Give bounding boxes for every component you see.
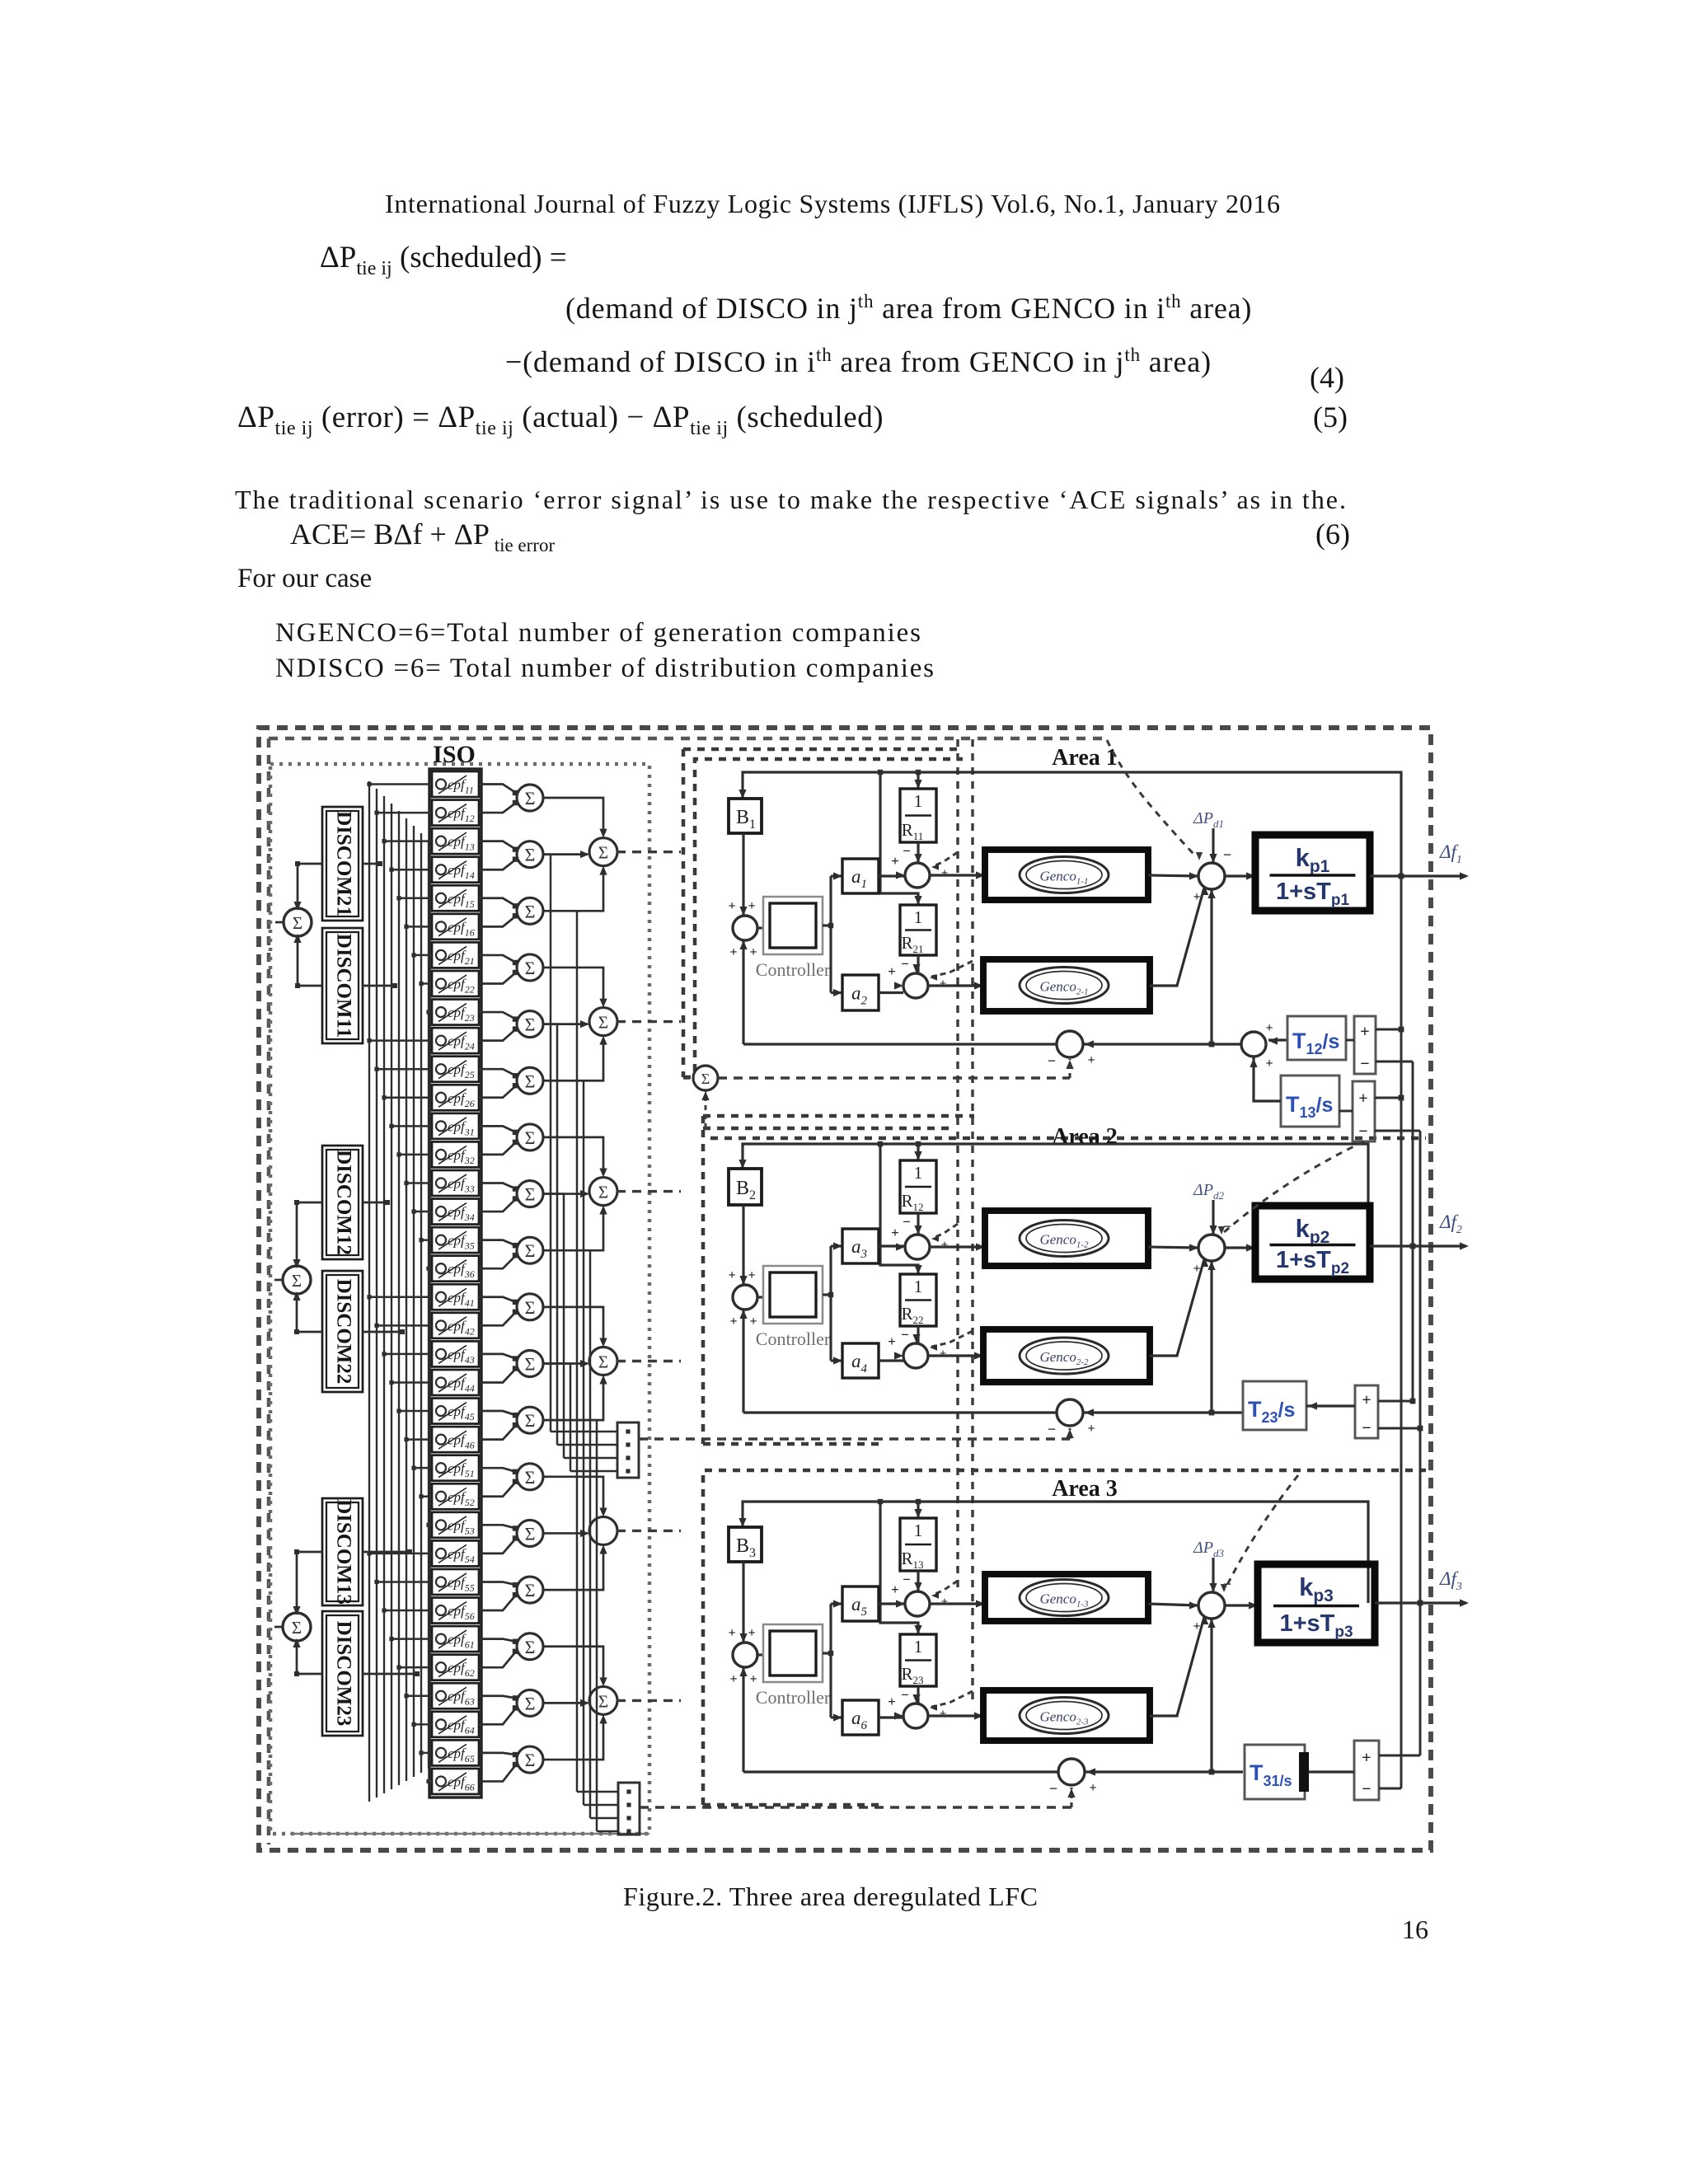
wire bus to cpf21 — [414, 954, 432, 956]
wire L2 to upper DISCOM — [297, 1202, 322, 1267]
genco sum circle 4 area2 — [903, 1343, 928, 1368]
DISCOM11 block — [322, 928, 363, 1043]
wire main sum vertical to tie line area3 — [1210, 1619, 1212, 1772]
svg-text:For our case: For our case — [237, 564, 372, 593]
svg-text:−: − — [903, 1572, 911, 1587]
wire L3 to lower DISCOM — [297, 1640, 322, 1674]
svg-text:NGENCO=6=Total number of gener: NGENCO=6=Total number of generation comp… — [275, 618, 921, 648]
svg-text:Σ: Σ — [525, 1184, 536, 1205]
wire Genco2-3 to main sum — [1150, 1617, 1204, 1716]
DISCO area sum circle L1 — [284, 908, 312, 936]
svg-text:+: + — [1362, 1391, 1371, 1409]
wire bus to cpf13 — [384, 840, 432, 841]
wire bus to cpf66 — [429, 1780, 432, 1782]
area3 dashed box bottom — [703, 1803, 882, 1807]
area2 dashed box left — [701, 1116, 706, 1444]
svg-text:+: + — [941, 867, 949, 880]
df2 feedback long vertical wire — [1412, 1062, 1414, 1401]
wire bus to cpf63 — [406, 1694, 432, 1696]
wire controller sum to controller area1 — [757, 926, 763, 929]
svg-text:−: − — [903, 1214, 911, 1230]
svg-text:Σ: Σ — [525, 1240, 536, 1261]
wire bus to cpf32 — [399, 1154, 432, 1155]
dashed wire upper collector to Area2 ACE — [639, 1437, 1070, 1440]
wire bus to cpf52 — [421, 1496, 432, 1497]
cpf12 block — [432, 800, 479, 826]
svg-text:DISCOM23: DISCOM23 — [332, 1621, 354, 1727]
stub L3 from border — [274, 1626, 284, 1629]
area1 feedback to R1 wire — [917, 772, 919, 789]
wire sum to Genco2-2 — [928, 1354, 983, 1357]
cpf66 block — [432, 1769, 479, 1794]
svg-text:Σ: Σ — [598, 1183, 608, 1202]
wire a2 to sum area1 — [879, 991, 903, 994]
controller sum circle area3 — [733, 1643, 757, 1667]
svg-text:Figure.2. Three area deregulat: Figure.2. Three area deregulated LFC — [623, 1882, 1038, 1911]
svg-text:ISO: ISO — [433, 741, 476, 768]
cpf45 block — [432, 1399, 479, 1424]
wire cpf pair 8 to sum — [479, 1183, 516, 1188]
dashed scheduled-tie output of G6 — [617, 1699, 681, 1702]
wire ACE to controller sum area2 — [742, 1310, 744, 1413]
wire main sum to kp2 — [1225, 1246, 1255, 1249]
wire cpf pair 14 to sum — [479, 1525, 516, 1528]
area2 dashed box top outer — [710, 1137, 1426, 1141]
svg-text:1: 1 — [914, 907, 923, 927]
second-level sum circle G5 — [589, 1516, 617, 1544]
DISCOM21 output wire — [363, 863, 380, 865]
cpf22 block — [432, 971, 479, 996]
svg-text:Σ: Σ — [525, 1750, 536, 1770]
ACE sum circle area3 — [1058, 1759, 1085, 1785]
gain block a1 — [842, 859, 879, 893]
T23/s block — [1243, 1381, 1306, 1430]
svg-text:−: − — [1048, 1421, 1056, 1437]
sum circle S8 — [517, 1181, 543, 1207]
svg-text:+: + — [891, 1225, 899, 1240]
wire cpf pair 11 to sum — [479, 1354, 516, 1359]
wire bus to cpf34 — [414, 1211, 432, 1212]
sum circle S2 — [517, 841, 543, 868]
svg-text:+: + — [891, 1582, 899, 1597]
wire bus to cpf44 — [392, 1381, 432, 1383]
wire sum to Genco1-2 — [930, 1245, 985, 1248]
dashed wire Sb1 to Area1 ACE — [718, 1076, 1070, 1079]
DISCOM13 block — [322, 1498, 363, 1605]
wire cpf pair 6 to sum — [479, 1069, 516, 1076]
svg-text:+: + — [748, 1268, 755, 1282]
droop block 1/R12 — [900, 1160, 936, 1213]
svg-text:International Journal of Fuzzy: International Journal of Fuzzy Logic Sys… — [385, 189, 1280, 218]
svg-text:+: + — [748, 899, 755, 913]
main sum circle area1 — [1198, 863, 1225, 889]
ACE wire right area2 — [1083, 1411, 1243, 1413]
sum circle S11 — [517, 1351, 543, 1377]
sum circle S5 — [517, 1011, 543, 1038]
wire bus to cpf51 — [414, 1467, 432, 1469]
wire T13 sign input — [1339, 1110, 1353, 1113]
wire controller sum to controller area3 — [757, 1653, 763, 1656]
svg-text:1: 1 — [914, 1163, 923, 1183]
dashed scheduled tie into area3 main sum — [1225, 1475, 1298, 1590]
svg-text:DISCOM21: DISCOM21 — [332, 811, 354, 916]
controller output split wire area1 — [823, 924, 831, 926]
svg-text:−: − — [1223, 846, 1231, 863]
svg-text:Σ: Σ — [525, 901, 536, 921]
svg-text:Σ: Σ — [598, 1352, 608, 1372]
cpf32 block — [432, 1141, 479, 1167]
wire cpf pair 17 to sum — [479, 1696, 516, 1699]
svg-text:1: 1 — [914, 1277, 923, 1296]
svg-text:Σ: Σ — [525, 1410, 536, 1431]
area3 top feedback wire — [743, 1502, 1368, 1603]
DISCOM22 output wire — [363, 1331, 402, 1333]
wire bus to cpf36 — [429, 1268, 432, 1269]
inner dashed left border — [267, 738, 271, 1844]
area3 feedback to R1 wire — [917, 1502, 919, 1518]
wire bus to cpf22 — [421, 982, 432, 984]
svg-text:+: + — [1193, 890, 1200, 904]
svg-text:+: + — [888, 1333, 896, 1349]
wire a5 to sum area3 — [879, 1602, 905, 1605]
inner dashed top border — [269, 737, 1109, 741]
cpf62 block — [432, 1655, 479, 1680]
df3 feedback long vertical wire — [1419, 1131, 1422, 1755]
wire T31 sign to T31 — [1309, 1770, 1354, 1773]
wire T13 minus to df3 line — [1375, 1130, 1420, 1132]
DISCOM22 block — [322, 1271, 363, 1392]
svg-text:Σ: Σ — [525, 958, 536, 978]
cpf column frame — [429, 769, 481, 1797]
cpf41 block — [432, 1284, 479, 1310]
svg-text:−: − — [1362, 1780, 1371, 1798]
svg-text:+: + — [749, 945, 757, 959]
sum circle S3 — [517, 898, 543, 924]
stub L1 from border — [275, 921, 284, 924]
power system block kp2 — [1255, 1206, 1370, 1279]
B3 block — [729, 1527, 762, 1562]
DISCOM13 output wire — [363, 1551, 410, 1554]
wire bus to cpf16 — [406, 926, 432, 927]
ISO demand dashed bus B — [971, 739, 973, 1703]
wire B1 to controller sum — [742, 833, 744, 916]
wire a6 to sum area3 — [879, 1716, 903, 1718]
wire T12 minus to df2 line — [1376, 1061, 1413, 1063]
wire T31 minus to df1 line — [1379, 1788, 1401, 1790]
svg-text:+: + — [1362, 1749, 1371, 1767]
wire bus to cpf26 — [384, 1097, 432, 1099]
droop block 1/R22 — [900, 1274, 936, 1326]
svg-text:Controller: Controller — [756, 959, 831, 980]
svg-text:+: + — [748, 1626, 755, 1640]
wire bus to cpf64 — [414, 1723, 432, 1725]
ACE wire right area3 — [1085, 1770, 1243, 1773]
svg-text:+: + — [728, 899, 735, 913]
wire cpf pair 7 to sum — [479, 1126, 516, 1132]
cpf61 block — [432, 1626, 479, 1652]
wire group 6 sums to second-level sum — [542, 1647, 603, 1684]
wire bus to cpf53 — [429, 1524, 432, 1526]
Genco1-2 block — [985, 1211, 1148, 1266]
ISO demand dashed bus A — [956, 739, 959, 1591]
controller sum circle area1 — [733, 916, 757, 940]
wire T23 sign to T23 — [1306, 1404, 1355, 1407]
wire cpf pair 1 to sum — [479, 785, 516, 794]
svg-text:Σ: Σ — [598, 1691, 608, 1711]
wire L3 to upper DISCOM — [297, 1552, 322, 1614]
cpf33 block — [432, 1170, 479, 1196]
svg-text:+: + — [729, 1315, 737, 1329]
svg-text:Σ: Σ — [525, 1071, 536, 1091]
wire group 2 sums to second-level sum — [542, 968, 603, 1005]
svg-text:−: − — [1358, 1122, 1367, 1141]
second-level sum circle G2 — [589, 1008, 617, 1036]
cpf26 block — [432, 1085, 479, 1110]
DISCOM23 block — [322, 1611, 363, 1736]
svg-text:+: + — [728, 1268, 735, 1282]
cpf51 block — [432, 1455, 479, 1481]
cpf11 block — [432, 771, 479, 797]
svg-text:+: + — [941, 1239, 949, 1252]
cpf42 block — [432, 1313, 479, 1338]
wire main sum to kp1 — [1225, 874, 1255, 877]
sum circle S12 — [517, 1407, 543, 1433]
wire sum to Genco2-1 — [928, 984, 983, 987]
gain block a4 — [842, 1343, 879, 1378]
gain block a5 — [842, 1586, 879, 1621]
scheduled sum circle Sb1 — [693, 1066, 718, 1090]
svg-text:ΔPtie ij (error) = ΔPtie ij (a: ΔPtie ij (error) = ΔPtie ij (actual) − Δ… — [237, 401, 884, 439]
sum circle S14 — [517, 1520, 543, 1546]
wire Genco1-3 to main sum — [1148, 1604, 1198, 1605]
output wire df1 — [1370, 874, 1466, 877]
wire bus to cpf12 — [377, 812, 432, 813]
area2 dashed box top second — [703, 1127, 954, 1131]
second-level sum circle G6 — [589, 1686, 617, 1714]
area1 feedback to R2 wire — [880, 772, 918, 905]
area2 feedback to R2 wire — [880, 1144, 918, 1274]
svg-text:+: + — [940, 1347, 947, 1361]
cpf43 block — [432, 1341, 479, 1366]
wire T31 plus to df3 line — [1379, 1755, 1420, 1757]
svg-text:(demand of DISCO in jth area f: (demand of DISCO in jth area from GENCO … — [565, 291, 1252, 325]
wire R22 to sum area2 — [917, 1326, 919, 1343]
svg-text:−: − — [901, 1687, 909, 1703]
area3 feedback to R2 wire — [880, 1502, 918, 1634]
cpf23 block — [432, 1000, 479, 1025]
power system block kp3 — [1258, 1564, 1375, 1643]
genco sum circle 1 area1 — [905, 863, 930, 888]
svg-text:Σ: Σ — [525, 1523, 536, 1544]
wire group 1 sums to second-level sum — [542, 798, 603, 835]
Genco2-2 block — [983, 1329, 1150, 1382]
svg-text:+: + — [1087, 1422, 1095, 1436]
controller output split wire area3 — [823, 1652, 831, 1654]
svg-text:+: + — [891, 853, 899, 869]
dashed demand hook into sum 4 area2 — [931, 1331, 973, 1347]
svg-text:Controller: Controller — [756, 1687, 831, 1708]
wire main sum vertical to tie line area1 — [1210, 889, 1212, 1044]
cpf44 block — [432, 1370, 479, 1395]
ISO dotted box — [270, 764, 649, 1834]
wire cpf pair 5 to sum — [479, 1012, 516, 1019]
svg-text:16: 16 — [1402, 1915, 1428, 1944]
DISCO area sum circle L3 — [283, 1613, 311, 1641]
droop block 1/R11 — [900, 789, 936, 842]
wire group 3 sums to second-level sum — [542, 1137, 603, 1174]
sum circle S18 — [517, 1746, 543, 1773]
wire sum to Genco2-3 — [928, 1714, 983, 1717]
wire bus to cpf61 — [392, 1638, 432, 1639]
svg-text:−: − — [901, 1327, 909, 1343]
svg-text:−: − — [1360, 1055, 1369, 1073]
svg-text:Σ: Σ — [525, 1354, 536, 1375]
cpf53 block — [432, 1512, 479, 1538]
svg-text:Area 1: Area 1 — [1052, 745, 1118, 771]
svg-text:Σ: Σ — [525, 1637, 536, 1657]
wire Genco1-2 to main sum — [1148, 1247, 1198, 1248]
sum circle S10 — [517, 1294, 543, 1320]
output wire df2 — [1370, 1244, 1466, 1247]
Controller block area2 — [763, 1266, 823, 1324]
svg-text:Σ: Σ — [292, 1271, 302, 1291]
wire bus to cpf43 — [384, 1353, 432, 1355]
wire bus to cpf23 — [429, 1011, 432, 1013]
wire T12 output to tie sum — [1268, 1038, 1287, 1041]
svg-text:+: + — [1089, 1781, 1096, 1795]
wire bus to cpf65 — [421, 1752, 432, 1754]
stub L2 from border — [274, 1279, 284, 1282]
dashed scheduled tie into area1 main sum — [1107, 740, 1197, 857]
svg-text:−: − — [1049, 1780, 1057, 1797]
dashed scheduled-tie output of G5 — [617, 1530, 681, 1532]
wire T23 plus to df2 line — [1378, 1400, 1413, 1403]
svg-text:Σ: Σ — [525, 1297, 536, 1318]
wire bus to cpf45 — [399, 1410, 432, 1412]
T12 sign block — [1354, 1016, 1376, 1074]
gain block a6 — [842, 1700, 879, 1735]
svg-text:Area 3: Area 3 — [1052, 1476, 1118, 1502]
area1 zone bottom dashed — [683, 1076, 705, 1080]
T12/s block — [1287, 1016, 1346, 1060]
svg-text:+: + — [729, 945, 737, 959]
sum circle S9 — [517, 1237, 543, 1263]
wire L1 to lower DISCOM — [298, 935, 322, 986]
wire group 4 sums to second-level sum — [542, 1307, 603, 1344]
svg-text:Σ: Σ — [525, 845, 536, 865]
wire bus to cpf42 — [377, 1324, 432, 1326]
cpf52 block — [432, 1483, 479, 1509]
main sum circle area3 — [1198, 1592, 1225, 1619]
area1 top feedback wire — [743, 772, 1401, 876]
load disturbance arrow dP d3 — [1212, 1558, 1214, 1592]
ISO bottom inner line — [290, 1833, 649, 1835]
wire cpf pair 16 to sum — [479, 1639, 516, 1642]
ACE wire left area1 — [743, 1043, 1057, 1045]
svg-text:−: − — [903, 843, 911, 859]
wire Genco2-2 to main sum — [1150, 1259, 1204, 1356]
svg-text:1: 1 — [914, 1521, 923, 1540]
svg-text:+: + — [1265, 1021, 1273, 1035]
wire T12 plus to df1 line — [1376, 1029, 1401, 1031]
svg-text:Σ: Σ — [292, 1618, 302, 1638]
wire Genco2-1 to main sum — [1150, 888, 1204, 986]
dashed demand hook into sum 6 area3 — [931, 1691, 973, 1707]
cpf65 block — [432, 1740, 479, 1765]
Genco2-1 block — [983, 959, 1150, 1011]
wire T12 sign input — [1346, 1039, 1354, 1042]
wire a3 to sum area2 — [879, 1244, 905, 1247]
sum circle S15 — [517, 1577, 543, 1603]
dashed scheduled-tie output of G1 — [617, 851, 681, 853]
wire cpf pair 3 to sum — [479, 898, 516, 907]
controller sum circle area2 — [733, 1285, 757, 1310]
area2 top feedback wire — [743, 1144, 1368, 1246]
DISCOM12 block — [322, 1146, 363, 1259]
dashed wire into Sb1 — [683, 1076, 693, 1079]
wire R23 to sum area3 — [917, 1686, 919, 1704]
dashed demand hook into sum 2 area1 — [931, 961, 973, 977]
sum circle S1 — [517, 785, 543, 811]
sum circle S4 — [517, 954, 543, 981]
wire bus to cpf56 — [384, 1610, 432, 1611]
wire bus to cpf46 — [406, 1438, 432, 1440]
Genco2-3 block — [983, 1690, 1150, 1741]
wire R11 to sum area1 — [917, 842, 919, 863]
cpf35 block — [432, 1227, 479, 1253]
svg-text:+: + — [1193, 1262, 1200, 1276]
svg-text:+: + — [1265, 1057, 1273, 1071]
main sum circle area2 — [1198, 1235, 1225, 1261]
wire cpf pair 2 to sum — [479, 841, 516, 850]
ACE wire left area3 — [743, 1770, 1058, 1773]
outer dashed figure border — [259, 728, 1431, 1850]
svg-text:DISCOM22: DISCOM22 — [332, 1279, 354, 1385]
load disturbance arrow dP d2 — [1212, 1200, 1214, 1235]
wire cpf pair 12 to sum — [479, 1411, 516, 1415]
wire T23 minus to df3 line — [1378, 1427, 1420, 1430]
ACE wire right area1 — [1083, 1043, 1240, 1045]
wire main sum vertical to tie line area2 — [1210, 1261, 1212, 1413]
df1 feedback long vertical wire — [1400, 876, 1403, 1788]
svg-text:Σ: Σ — [598, 843, 608, 863]
wire B3 to controller sum — [742, 1562, 744, 1643]
svg-text:+: + — [1087, 1053, 1095, 1067]
wire cpf pair 13 to sum — [479, 1468, 516, 1472]
area zone dashed border left (area1) — [682, 749, 686, 1077]
gain block a2 — [842, 975, 879, 1010]
svg-text:Σ: Σ — [525, 1467, 536, 1488]
svg-text:+: + — [940, 977, 947, 991]
svg-text:−(demand of DISCO in ith area: −(demand of DISCO in ith area from GENCO… — [505, 344, 1212, 378]
wire controller sum to controller area2 — [757, 1296, 763, 1298]
ACE sum circle area2 — [1057, 1399, 1083, 1426]
wire L1 to upper DISCOM — [298, 864, 322, 909]
wire T13 plus to df1 line — [1375, 1097, 1401, 1099]
cpf24 block — [432, 1028, 479, 1053]
svg-text:Area 2: Area 2 — [1052, 1124, 1118, 1150]
svg-text:Σ: Σ — [701, 1071, 710, 1087]
svg-text:+: + — [941, 1596, 949, 1609]
svg-text:(6): (6) — [1315, 518, 1350, 551]
cpf14 block — [432, 857, 479, 883]
dashed demand hook into sum 3 area2 — [933, 1224, 958, 1238]
wire bus to cpf62 — [399, 1666, 432, 1668]
svg-text:+: + — [1193, 1619, 1200, 1633]
wire ACE to controller sum area3 — [742, 1667, 744, 1772]
dashed scheduled-tie output of G3 — [617, 1190, 681, 1193]
sum circle S6 — [517, 1067, 543, 1094]
